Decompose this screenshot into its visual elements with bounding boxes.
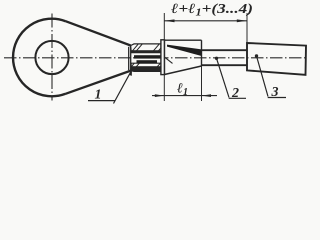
top band dense inner-edge ink	[132, 50, 162, 53]
conductor strands in barrel	[134, 55, 161, 58]
leader 2 line	[217, 58, 230, 97]
l1 left outside arrow	[155, 94, 165, 97]
insulation (part 3)	[247, 43, 306, 75]
svg-text:3: 3	[271, 85, 279, 100]
dim extension line at cone end	[201, 66, 203, 101]
flare bottom edge	[165, 66, 202, 75]
l1 right outside arrow	[202, 94, 212, 97]
dim extension line at insulation start	[246, 13, 248, 43]
dim extension line at barrel end	[163, 13, 165, 101]
leader 2 shelf	[229, 97, 246, 99]
leader 1 shelf	[88, 100, 115, 102]
leader 3 shelf	[268, 97, 286, 99]
conductor tube (part 2) top edge	[202, 49, 248, 51]
top tangent line	[66, 21, 131, 45]
centerline horizontal	[4, 57, 306, 59]
barrel end flange	[161, 40, 165, 75]
lug ring outer teardrop arc	[13, 19, 66, 97]
conductor taper wedge	[167, 45, 202, 56]
barrel top band (hatched)	[128, 42, 166, 56]
leader 1 arrowhead	[129, 70, 132, 76]
svg-text:ℓ+ℓ1+(3...4): ℓ+ℓ1+(3...4)	[171, 2, 253, 19]
flare inner detail	[165, 57, 173, 63]
centerline vertical	[51, 14, 53, 101]
bottom band dense outer-edge ink	[131, 66, 161, 71]
barrel left edge	[130, 46, 132, 71]
svg-text:2: 2	[231, 86, 239, 101]
top dimension left arrow	[164, 19, 174, 22]
bottom tangent line	[65, 71, 130, 94]
lug ring hole	[35, 41, 68, 74]
top dimension right arrow	[237, 19, 247, 22]
flare top edge	[165, 39, 202, 41]
conductor tube (part 2) bottom edge	[202, 64, 248, 66]
leader 3 dot	[255, 54, 258, 57]
leader 2 dot	[215, 57, 218, 60]
flare right edge	[201, 40, 203, 66]
leader 3 line	[257, 56, 269, 97]
barrel bottom band (hatched)	[124, 59, 169, 75]
l1 dimension line	[152, 95, 217, 97]
top dimension line	[164, 20, 247, 22]
neck edge	[128, 47, 130, 70]
svg-text:1: 1	[95, 88, 102, 103]
leader 1 line	[114, 71, 132, 104]
